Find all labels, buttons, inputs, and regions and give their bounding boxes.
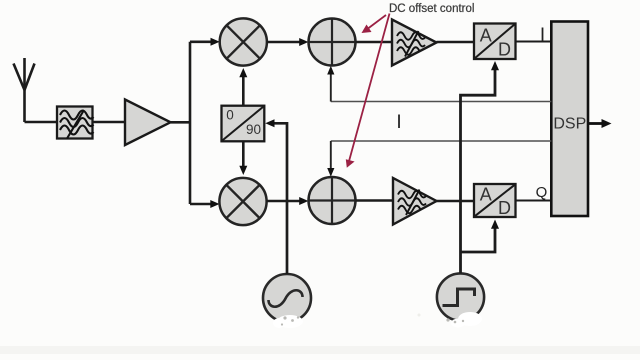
wire antenna to band-pass filter bbox=[25, 121, 59, 124]
svg-text:I: I bbox=[540, 25, 545, 46]
wire trunk to bottom mixer bbox=[190, 203, 212, 206]
splitter trunk vertical wire bbox=[189, 42, 192, 204]
svg-text:D: D bbox=[498, 198, 511, 218]
phase shifter 0/90 box bbox=[222, 106, 265, 142]
svg-text:DSP: DSP bbox=[553, 116, 586, 133]
wire trunk to top mixer bbox=[190, 40, 212, 43]
sampling clock oscillator (square wave) bbox=[437, 273, 484, 320]
adder S2 (bottom summing node) bbox=[309, 177, 356, 224]
svg-text:A: A bbox=[480, 26, 492, 46]
wire filter-amp A2 to ADC2 bbox=[437, 200, 475, 203]
wire filter to amplifier bbox=[93, 121, 126, 124]
antenna bbox=[14, 58, 35, 122]
svg-text:90: 90 bbox=[246, 122, 261, 137]
wire filter-amp A1 to ADC1 bbox=[437, 41, 475, 44]
wire clock branch to ADC2 bbox=[461, 227, 496, 252]
wire amplifier to splitter trunk bbox=[171, 121, 191, 124]
ADC2 (A/D converter, bottom) bbox=[474, 184, 516, 218]
mixer M1 (top) bbox=[220, 18, 267, 65]
wire mixer M1 to adder S1 bbox=[267, 41, 300, 44]
dc offset pointer arrow to adder S1 bbox=[368, 15, 386, 29]
svg-text:Q: Q bbox=[536, 184, 548, 201]
feedback line Q (DSP to adder S2, dc offset) bbox=[331, 140, 552, 142]
DSP output arrow bbox=[589, 122, 603, 125]
wire ADC1 to DSP bbox=[516, 41, 552, 43]
svg-text:0: 0 bbox=[226, 108, 234, 123]
adder S1 (top summing node) bbox=[309, 19, 356, 66]
svg-text:A: A bbox=[480, 185, 492, 205]
wire clock to ADC1 bbox=[461, 69, 496, 273]
baseband filter-amplifier A1 (top) bbox=[392, 20, 437, 66]
DSP U1 bbox=[551, 22, 588, 217]
watermark remnants bbox=[273, 312, 482, 328]
dc offset pointer arrow to adder S2 bbox=[349, 14, 390, 164]
wire LO to 0/90 bbox=[273, 123, 287, 274]
wire mixer M2 to adder S2 bbox=[267, 200, 300, 203]
amplifier (LNA) bbox=[125, 100, 171, 146]
wire adder S1 to baseband filter-amp A1 bbox=[356, 41, 393, 44]
svg-text:DC offset control: DC offset control bbox=[389, 3, 474, 15]
local oscillator LO (sine) bbox=[263, 274, 311, 322]
wire ADC2 to DSP bbox=[516, 200, 552, 202]
wire 0/90 to mixer M2 bbox=[242, 141, 245, 168]
band-pass filter FL1 bbox=[57, 107, 94, 139]
baseband filter-amplifier A2 (bottom) bbox=[393, 178, 437, 225]
mixer M2 (bottom) bbox=[219, 178, 266, 225]
svg-text:I: I bbox=[396, 112, 401, 133]
wire adder S2 to baseband filter-amp A2 bbox=[356, 199, 394, 202]
feedback line I (DSP to adder S1, dc offset) bbox=[331, 101, 552, 103]
wire 0/90 to mixer M1 bbox=[242, 76, 245, 106]
svg-text:D: D bbox=[498, 40, 511, 60]
ADC1 (A/D converter, top) bbox=[474, 24, 516, 60]
